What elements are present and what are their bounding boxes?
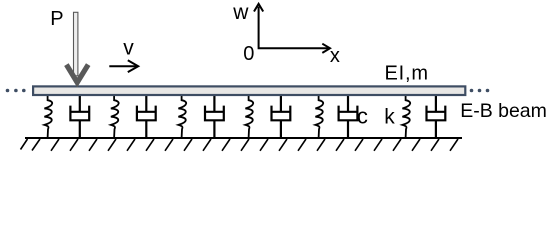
svg-text:E-B beam: E-B beam	[460, 100, 547, 122]
right continuation dots	[470, 89, 490, 93]
spring 5	[315, 96, 323, 138]
svg-text:x: x	[330, 45, 340, 67]
w axis arrowhead	[254, 4, 263, 12]
svg-text:EI,m: EI,m	[385, 62, 429, 84]
spring 4	[245, 96, 253, 138]
velocity arrow	[109, 60, 138, 72]
spring 2	[111, 96, 119, 138]
spring 6 (stiffness k)	[402, 96, 410, 138]
svg-text:v: v	[123, 36, 134, 59]
load arrow P (double-line shaft)	[74, 12, 78, 76]
svg-text:0: 0	[243, 43, 254, 65]
x axis arrowhead	[322, 44, 330, 53]
beam (E-B beam)	[33, 86, 465, 95]
svg-text:c: c	[357, 104, 368, 129]
axis origin and lines	[254, 4, 330, 53]
svg-text:k: k	[384, 105, 395, 128]
ground hatching	[21, 139, 459, 151]
dashpot 6	[426, 96, 445, 138]
load arrow P head	[66, 65, 88, 83]
svg-text:w: w	[232, 1, 249, 24]
left continuation dots	[6, 89, 26, 93]
dashpot 5 (damping c)	[339, 96, 358, 138]
dashpot 2	[137, 96, 156, 138]
spring 3	[178, 96, 186, 138]
svg-text:P: P	[50, 8, 63, 30]
dashpot 4	[271, 96, 290, 138]
ground line	[25, 137, 462, 139]
dashpot 3	[205, 96, 224, 138]
w axis line	[259, 7, 328, 49]
dashpot 1	[70, 96, 89, 138]
spring 1	[44, 96, 52, 138]
